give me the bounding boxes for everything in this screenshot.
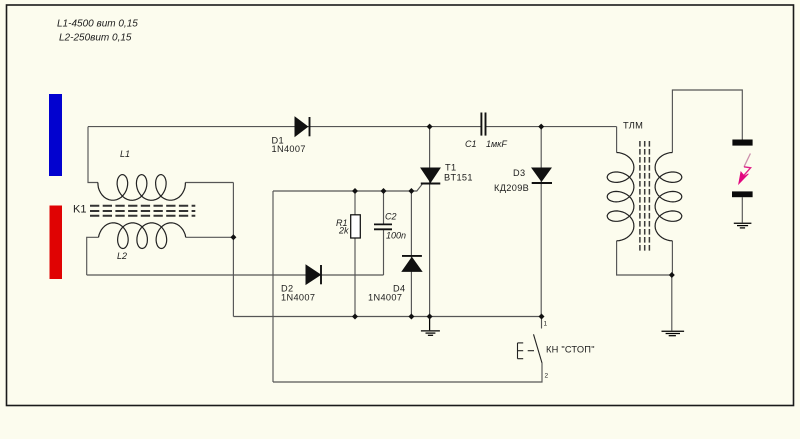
wire D2 horizontal — [87, 274, 384, 276]
wire gate to thyristor — [411, 184, 422, 191]
wire D3 vertical — [540, 127, 542, 317]
diode D2 — [306, 265, 321, 284]
thyristor T1 — [421, 168, 441, 184]
wire L2 right lead — [186, 236, 234, 238]
wire D3 to switch contact 1 — [541, 317, 543, 329]
wire L1 right lead — [185, 182, 233, 184]
junction node D4 top — [408, 188, 414, 194]
wire D4 vertical — [410, 191, 412, 317]
junction node C1/D3 top — [538, 124, 544, 130]
svg-text:C1: C1 — [465, 139, 477, 149]
svg-text:T1: T1 — [445, 163, 456, 173]
svg-text:1N4007: 1N4007 — [281, 293, 315, 303]
wire C2 top lead — [383, 191, 385, 225]
svg-text:K1: K1 — [73, 204, 86, 216]
spark symbol — [739, 154, 751, 184]
wire TLM secondary bottom — [671, 241, 673, 275]
ground at TLM — [662, 331, 685, 335]
wire top main left — [88, 126, 481, 128]
junction node R1 bottom — [352, 314, 358, 320]
transformer TLM core — [640, 141, 650, 252]
junction node L1/L2 right — [230, 234, 236, 240]
svg-text:КН "СТОП": КН "СТОП" — [546, 345, 595, 355]
junction node TLM bottom — [669, 272, 675, 278]
svg-text:1N4007: 1N4007 — [368, 293, 402, 303]
junction node D4 bottom — [408, 314, 414, 320]
pushbutton KN STOP — [518, 334, 543, 363]
diode D1 — [295, 117, 310, 136]
inductor L2 — [99, 223, 186, 249]
junction node D3 bottom — [539, 314, 545, 320]
wire TLM ground stem — [671, 275, 673, 331]
capacitor C2 — [374, 224, 392, 229]
wire switch bottom — [273, 363, 542, 382]
svg-text:100n: 100n — [386, 231, 406, 241]
inductor L1 — [98, 175, 185, 201]
wire TLM primary entry — [616, 127, 618, 153]
wire top main right — [486, 126, 617, 128]
junction node T1 cathode bottom — [427, 314, 433, 320]
diode D4 — [402, 256, 422, 272]
wire TLM secondary top — [672, 90, 742, 153]
wire right vertical x=233 — [232, 183, 234, 317]
transformer K1 core — [90, 206, 195, 216]
junction node R1 top — [352, 188, 358, 194]
wire spark gap stem — [741, 197, 743, 222]
diode D3 — [532, 168, 552, 183]
svg-text:BT151: BT151 — [444, 173, 473, 183]
wire C2 bottom lead — [383, 229, 385, 275]
wire bottom bus — [233, 316, 541, 318]
svg-text:C2: C2 — [385, 212, 397, 222]
spark gap bottom electrode — [732, 191, 753, 197]
junction node C2 top — [381, 188, 387, 194]
svg-text:КД209В: КД209В — [494, 183, 529, 193]
wire R1 bottom lead — [354, 238, 356, 317]
wire TLM primary bottom — [617, 241, 672, 275]
junction node D1/T1 top — [427, 124, 433, 130]
svg-text:L1: L1 — [120, 149, 130, 159]
svg-text:L1-4500 вит 0,15: L1-4500 вит 0,15 — [57, 19, 138, 30]
svg-text:1N4007: 1N4007 — [272, 144, 306, 154]
resistor R1 — [351, 215, 361, 238]
transformer TLM primary winding — [607, 153, 634, 241]
svg-text:2k: 2k — [338, 226, 349, 236]
wire gate loop vertical x=273 — [272, 191, 274, 382]
wire T1 vertical — [429, 127, 431, 317]
svg-text:L2: L2 — [117, 251, 127, 261]
capacitor C1 — [481, 113, 485, 136]
wire L1 left vertical — [88, 127, 98, 183]
blue magnet bar — [49, 94, 62, 176]
ground at thyristor cathode — [421, 317, 440, 336]
spark gap top electrode — [732, 140, 752, 146]
svg-text:2: 2 — [545, 373, 549, 380]
svg-text:L2-250вит 0,15: L2-250вит 0,15 — [59, 33, 132, 44]
wire L2 left lead — [87, 237, 99, 275]
ground at spark gap — [734, 223, 752, 228]
svg-text:1мкF: 1мкF — [486, 139, 507, 149]
red magnet bar — [50, 206, 63, 280]
svg-text:D3: D3 — [513, 168, 525, 178]
wire R1 top lead — [354, 191, 356, 215]
transformer TLM secondary winding — [655, 153, 682, 241]
svg-text:1: 1 — [544, 321, 548, 328]
svg-text:ТЛМ: ТЛМ — [623, 121, 643, 131]
wire gate horizontal — [273, 190, 411, 192]
